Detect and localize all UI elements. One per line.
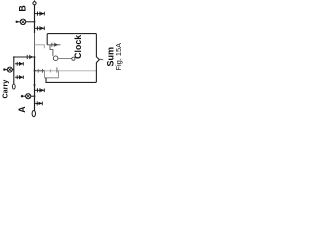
- svg-text:B: B: [17, 5, 27, 11]
- svg-text:Carry: Carry: [1, 80, 10, 99]
- svg-text:Clock: Clock: [73, 35, 83, 59]
- svg-text:Fig. 15A: Fig. 15A: [114, 43, 123, 71]
- svg-text:A: A: [17, 106, 27, 113]
